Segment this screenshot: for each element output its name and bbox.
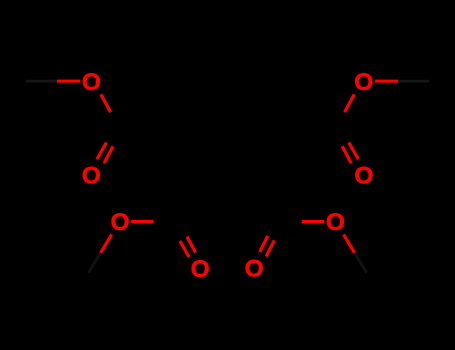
wire O-C(=O) red half bond top-left (101, 94, 111, 112)
wire C=O double bond line 1 top-left (97, 143, 106, 160)
svg-text:O: O (326, 209, 345, 236)
svg-text:O: O (354, 69, 373, 96)
wire O-C(=O) red half bond bottom-right (horizontal) (302, 220, 325, 223)
svg-text:O: O (245, 256, 264, 283)
wire C=O double bond line 1 bottom-right (260, 236, 268, 252)
wire C=O double bond line 2 top-left (104, 146, 113, 163)
wire CH2 half bond (dark) bottom-left (89, 253, 101, 273)
wire C=O double bond line 1 bottom-left (187, 237, 196, 253)
wire O-CH2 red half bond bottom-right (344, 234, 355, 252)
wire CH2 half bond (dark) bottom-right (355, 253, 367, 273)
wire O-CH3 red half bond top-right (375, 80, 398, 83)
wire CH3-O half bond (dark) top-right (398, 80, 429, 83)
wire O-CH3 red half bond top-left (57, 80, 80, 83)
wire O-C(=O) red half bond bottom-left (horizontal) (131, 220, 154, 223)
wire O-C(=O) red half bond top-right (345, 94, 355, 112)
wire C=O double bond line 2 bottom-right (266, 240, 274, 256)
svg-text:O: O (110, 209, 129, 236)
wire C=O double bond line 1 top-right (349, 143, 358, 160)
svg-text:O: O (82, 162, 101, 189)
wire CH3-O half bond (dark) top-left (26, 80, 57, 83)
wire C=O double bond line 2 bottom-left (180, 241, 189, 257)
svg-text:O: O (354, 162, 373, 189)
svg-text:O: O (191, 256, 210, 283)
wire C=O double bond line 2 top-right (342, 146, 351, 163)
wire O-CH2 red half bond bottom-left (101, 234, 112, 252)
svg-text:O: O (82, 69, 101, 96)
